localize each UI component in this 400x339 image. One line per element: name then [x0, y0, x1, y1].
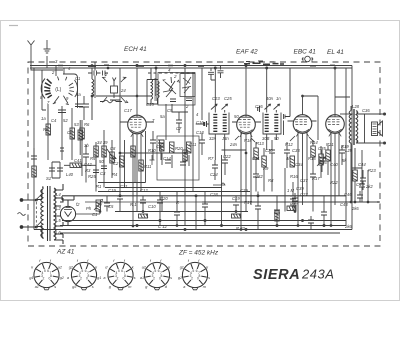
svg-text:a1: a1	[35, 285, 39, 289]
svg-text:C10: C10	[148, 204, 156, 209]
svg-text:R6: R6	[84, 122, 90, 127]
svg-text:C20: C20	[160, 196, 168, 201]
svg-text:C8: C8	[110, 146, 116, 151]
svg-text:C29: C29	[240, 188, 248, 193]
svg-text:C17: C17	[124, 108, 132, 113]
svg-text:g1: g1	[97, 276, 101, 280]
svg-text:5a: 5a	[76, 92, 81, 97]
svg-text:R,1: R,1	[130, 202, 137, 207]
svg-text:R25: R25	[88, 174, 96, 179]
svg-text:g1: g1	[180, 266, 184, 270]
svg-text:ZF = 452 kHz: ZF = 452 kHz	[178, 250, 219, 257]
svg-text:C16: C16	[196, 120, 204, 125]
svg-text:s: s	[54, 285, 56, 289]
svg-text:C4: C4	[51, 118, 57, 123]
svg-text:C40: C40	[330, 162, 338, 167]
svg-text:4n: 4n	[286, 156, 291, 161]
svg-text:S1: S1	[46, 176, 51, 181]
svg-text:EBC 41: EBC 41	[294, 49, 317, 56]
svg-text:C33: C33	[292, 148, 300, 153]
svg-text:R17: R17	[244, 200, 252, 205]
svg-text:R18: R18	[244, 138, 252, 143]
svg-text:SIERA: SIERA	[253, 267, 300, 283]
svg-text:L5: L5	[56, 218, 61, 223]
svg-text:5: 5	[118, 269, 120, 273]
svg-text:C45: C45	[356, 182, 364, 187]
svg-text:1a: 1a	[41, 116, 46, 121]
svg-text:2k6: 2k6	[351, 206, 359, 211]
svg-text:30B: 30B	[262, 136, 270, 141]
svg-text:L2: L2	[56, 206, 61, 211]
svg-text:32n: 32n	[209, 136, 217, 141]
svg-text:C19: C19	[108, 188, 116, 193]
svg-text:EL 41: EL 41	[327, 49, 344, 56]
svg-text:0: 0	[197, 277, 199, 281]
svg-text:ECH 41: ECH 41	[124, 46, 147, 53]
svg-text:R2: R2	[43, 127, 49, 132]
svg-text:R11: R11	[144, 164, 151, 169]
svg-text:5: 5	[192, 269, 194, 273]
svg-text:C14: C14	[163, 156, 171, 161]
svg-text:2k2: 2k2	[365, 184, 373, 189]
svg-text:R20: R20	[175, 146, 183, 151]
svg-text:R16: R16	[290, 174, 298, 179]
svg-text:5: 5	[154, 269, 156, 273]
svg-text:R12: R12	[285, 142, 293, 147]
svg-text:5: 5	[81, 269, 83, 273]
svg-text:C30: C30	[265, 148, 273, 153]
svg-text:m: m	[203, 285, 206, 289]
svg-text:m: m	[128, 285, 131, 289]
svg-text:0: 0	[159, 277, 161, 281]
svg-text:C1: C1	[75, 76, 80, 81]
svg-text:53: 53	[74, 122, 79, 127]
svg-text:L28: L28	[352, 104, 360, 109]
svg-text:L40: L40	[66, 172, 74, 177]
svg-text:5: 5	[44, 269, 46, 273]
svg-text:50: 50	[99, 159, 104, 164]
svg-text:R21: R21	[326, 142, 334, 147]
svg-text:C25: C25	[224, 96, 232, 101]
svg-text:R14: R14	[310, 140, 318, 145]
svg-text:a: a	[67, 276, 69, 280]
svg-text:52: 52	[63, 118, 68, 123]
svg-text:243A: 243A	[301, 267, 334, 282]
svg-text:34 39: 34 39	[97, 140, 108, 145]
svg-text:50: 50	[274, 136, 279, 141]
svg-text:40n: 40n	[266, 96, 274, 101]
svg-text:R15: R15	[308, 156, 316, 161]
svg-text:C36: C36	[362, 108, 370, 113]
svg-text:C43: C43	[340, 202, 348, 207]
svg-text:C39: C39	[296, 186, 304, 191]
svg-text:C46: C46	[344, 192, 352, 197]
svg-text:R9: R9	[263, 166, 269, 171]
svg-text:EAF 42: EAF 42	[236, 49, 258, 56]
svg-text:C31: C31	[252, 156, 260, 161]
svg-text:K12: K12	[290, 202, 298, 207]
svg-text:24: 24	[120, 88, 126, 93]
svg-text:2k6: 2k6	[344, 224, 352, 229]
svg-text:C34: C34	[295, 162, 303, 167]
svg-text:C9: C9	[167, 108, 173, 113]
svg-text:C5: C5	[108, 204, 114, 209]
svg-text:Ph: Ph	[86, 206, 92, 211]
svg-text:C24: C24	[210, 172, 218, 177]
svg-text:C26: C26	[255, 104, 263, 109]
svg-text:C22: C22	[223, 154, 231, 159]
svg-text:R5: R5	[90, 156, 96, 161]
svg-text:R 22: R 22	[236, 226, 246, 231]
svg-text:L29: L29	[345, 148, 353, 153]
svg-text:R8: R8	[268, 178, 274, 183]
svg-text:R: R	[176, 200, 179, 205]
svg-text:R23: R23	[368, 168, 376, 173]
svg-text:50: 50	[234, 114, 239, 119]
svg-text:C21: C21	[120, 184, 128, 189]
svg-text:C18: C18	[196, 130, 204, 135]
svg-text:C32: C32	[255, 174, 263, 179]
svg-text:(L): (L)	[55, 87, 61, 93]
svg-text:C42: C42	[84, 162, 92, 167]
svg-text:5a: 5a	[160, 114, 165, 119]
svg-text:C1: C1	[92, 212, 97, 217]
svg-text:C3: C3	[100, 171, 106, 176]
svg-text:C6: C6	[67, 130, 73, 135]
svg-text:a1: a1	[140, 276, 144, 280]
svg-text:2: 2	[173, 74, 177, 79]
svg-text:C12: C12	[140, 188, 148, 193]
svg-text:a: a	[183, 285, 185, 289]
svg-text:L4: L4	[56, 192, 61, 197]
svg-text:24n: 24n	[229, 142, 238, 147]
svg-text:C28: C28	[210, 192, 218, 197]
svg-text:C23: C23	[212, 96, 220, 101]
svg-text:C11: C11	[189, 142, 196, 147]
svg-text:3b: 3b	[84, 143, 89, 148]
svg-text:C37: C37	[300, 178, 308, 183]
svg-text:C41: C41	[74, 158, 82, 163]
svg-text:C27: C27	[300, 192, 308, 197]
svg-text:C15: C15	[146, 102, 154, 107]
svg-text:R22: R22	[330, 180, 338, 185]
svg-text:1 M: 1 M	[287, 188, 294, 193]
svg-text:s: s	[208, 276, 210, 280]
svg-text:C19: C19	[232, 196, 240, 201]
svg-text:R4: R4	[112, 172, 118, 177]
svg-text:R13: R13	[256, 141, 264, 146]
svg-text:R17: R17	[312, 176, 320, 181]
svg-text:s: s	[170, 276, 172, 280]
svg-text:L6: L6	[56, 230, 61, 235]
svg-text:AZ 41: AZ 41	[56, 249, 75, 256]
svg-text:C 12: C 12	[158, 224, 168, 229]
svg-text:C13: C13	[156, 144, 164, 149]
svg-text:1n: 1n	[276, 96, 281, 101]
svg-text:R7: R7	[208, 156, 214, 161]
svg-text:J4n: J4n	[221, 136, 229, 141]
svg-text:R3: R3	[85, 168, 91, 173]
svg-text:C44: C44	[358, 162, 366, 167]
svg-text:s: s	[134, 276, 136, 280]
svg-text:g1: g1	[29, 276, 33, 280]
svg-text:s: s	[92, 285, 94, 289]
svg-text:R1: R1	[96, 184, 101, 189]
svg-text:0: 0	[86, 277, 88, 281]
svg-text:C2: C2	[113, 161, 119, 166]
svg-text:C36: C36	[319, 160, 327, 165]
svg-text:0: 0	[123, 277, 125, 281]
svg-text:a: a	[103, 276, 105, 280]
svg-text:C7: C7	[176, 126, 182, 131]
svg-text:0: 0	[49, 277, 51, 281]
